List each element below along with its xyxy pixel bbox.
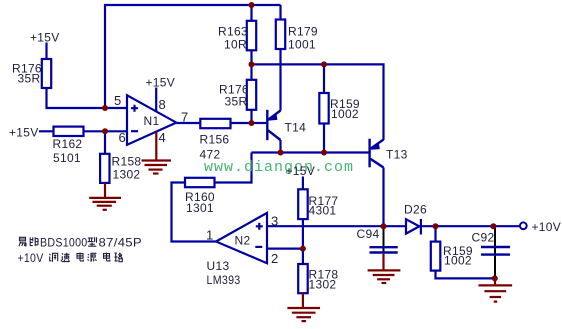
wire R159a stubs <box>323 64 325 93</box>
wire R158 top stub <box>104 131 106 154</box>
resistor R159 1002 left <box>319 93 328 124</box>
transistor T14 <box>267 110 280 140</box>
resistor R179 1001 <box>276 20 285 50</box>
svg-text:35R: 35R <box>18 72 41 86</box>
wire R159b bottom rail <box>436 271 495 279</box>
wire R179 bottom to T14 collector <box>279 49 281 111</box>
resistor R178 1302 <box>298 264 308 293</box>
svg-text:1002: 1002 <box>444 254 472 268</box>
transistor T13 <box>370 139 384 168</box>
wire N2 pin2 <box>267 248 303 250</box>
ground at C94 <box>368 270 401 283</box>
svg-text:5: 5 <box>114 93 121 108</box>
op-amp N1 <box>127 95 176 145</box>
svg-text:1302: 1302 <box>309 278 337 292</box>
resistor R160 1301 <box>185 178 215 187</box>
wire R156 to T14 base node <box>231 122 252 124</box>
svg-text:1002: 1002 <box>331 107 359 121</box>
svg-text:T14: T14 <box>285 121 307 135</box>
svg-text:N2: N2 <box>235 234 251 248</box>
svg-text:D26: D26 <box>404 203 427 217</box>
wire R163 bottom stub <box>250 50 252 64</box>
svg-text:R158: R158 <box>112 155 142 169</box>
wire R159b top stub <box>434 226 436 241</box>
wire T13 collector down <box>382 168 384 227</box>
op-amp N1 pin4 ground stem (maroon) <box>155 132 157 160</box>
wire R179 top drop <box>279 5 281 20</box>
svg-text:C94: C94 <box>357 227 380 241</box>
wire R160 left loop to N2 output <box>172 183 217 242</box>
wire rail to R160 right <box>215 153 252 183</box>
svg-text:+15V: +15V <box>146 76 176 90</box>
wire pin7 to R156 <box>176 122 200 124</box>
svg-text:R179: R179 <box>288 25 318 39</box>
resistor R176 35R second <box>247 80 256 110</box>
svg-text:+15V: +15V <box>286 164 316 178</box>
junction node rail-R159a <box>321 150 327 156</box>
resistor R159 1002 right <box>431 242 441 271</box>
wire T14 collector drop <box>279 140 281 153</box>
caption line 1: Chinese title 易能BDS1000型87/45P <box>19 237 38 246</box>
resistor R177 4301 <box>298 189 308 219</box>
svg-text:87/45P: 87/45P <box>99 236 143 250</box>
svg-text:6: 6 <box>119 130 126 145</box>
op-amp N2 U13 LM393 <box>216 213 267 263</box>
junction node top R163 <box>102 2 498 281</box>
svg-text:1301: 1301 <box>186 201 214 215</box>
junction node T13-C94 <box>381 223 387 229</box>
wire T14 emitter rail <box>252 151 369 153</box>
resistor R158 1302 <box>100 154 109 183</box>
wire T14 base <box>252 122 267 124</box>
svg-text:5101: 5101 <box>53 151 81 165</box>
svg-text:+10V: +10V <box>532 220 562 234</box>
junction node bus-R159a <box>321 61 327 67</box>
junction node D26-R159b <box>433 223 439 229</box>
junction node bus-R163 <box>249 61 255 67</box>
wire D26 cathode to +10V terminal <box>422 225 520 227</box>
R178 ground stem (maroon) <box>302 293 304 307</box>
svg-text:3: 3 <box>271 214 278 229</box>
svg-text:7: 7 <box>181 109 188 124</box>
resistor R156 472 <box>200 119 230 128</box>
wire +15V to R162 <box>39 130 54 132</box>
junction node T14 base <box>249 120 255 126</box>
svg-text:4301: 4301 <box>309 204 337 218</box>
svg-text:R162: R162 <box>53 137 83 151</box>
resistor R162 5101 <box>54 127 84 136</box>
wire R162 to pin6 <box>84 130 128 132</box>
svg-text:8: 8 <box>159 97 166 112</box>
svg-text:R163: R163 <box>218 25 248 39</box>
wire top feedback horizontal <box>105 5 281 108</box>
capacitor C94 <box>370 226 398 269</box>
svg-text:1: 1 <box>206 228 213 243</box>
ground at N1 pin4 <box>142 161 172 174</box>
junction node rail-T14 <box>278 150 284 156</box>
svg-text:4: 4 <box>159 130 166 145</box>
svg-text:+10V: +10V <box>18 251 44 265</box>
svg-text:2: 2 <box>271 251 278 266</box>
junction node pin5 <box>102 105 108 111</box>
svg-text:LM393: LM393 <box>207 273 241 287</box>
svg-text:N1: N1 <box>144 114 160 128</box>
capacitor C92 <box>481 226 510 284</box>
junction node pin6 <box>102 128 108 134</box>
svg-text:C92: C92 <box>472 231 495 245</box>
resistor R176 35R top-left <box>42 20 441 294</box>
svg-text:+15V: +15V <box>9 126 39 140</box>
wire +15V to R177 <box>302 177 304 190</box>
ground at R178 <box>287 308 320 321</box>
terminal +10V <box>520 222 527 229</box>
svg-text:35R: 35R <box>225 95 248 109</box>
svg-text:BDS1000: BDS1000 <box>40 236 88 250</box>
svg-text:+15V: +15V <box>30 31 60 45</box>
svg-text:10R: 10R <box>224 38 247 52</box>
wire T13 emitter up <box>382 138 384 141</box>
ground at C92 <box>479 285 513 301</box>
wire R176b stubs <box>250 64 252 79</box>
junction node C92 top <box>490 223 496 229</box>
junction node C92 bottom <box>492 275 498 281</box>
svg-text:U13: U13 <box>207 259 230 273</box>
diode D26 <box>406 219 421 235</box>
ground at R158 <box>89 198 121 210</box>
wire +15V to R176a <box>45 43 47 60</box>
svg-text:www.diangon.com: www.diangon.com <box>204 159 354 176</box>
wire N2 pin3 rail to D26 <box>267 225 406 227</box>
svg-text:1001: 1001 <box>288 38 316 52</box>
R158 ground stem (maroon) <box>104 183 106 197</box>
wire pin8 stem <box>155 88 157 112</box>
svg-text:1302: 1302 <box>113 168 141 182</box>
wire R163 top stub <box>250 5 252 21</box>
wire bus y64 <box>252 64 384 139</box>
svg-text:R156: R156 <box>200 133 230 147</box>
wire R177 down through pin3 to pin2 node and R178 <box>302 219 304 264</box>
wire R176a to pin5 rail <box>47 88 128 108</box>
svg-text:T13: T13 <box>386 148 408 162</box>
junction node pin2-R177 <box>300 246 306 252</box>
resistor R163 10R <box>247 21 256 51</box>
